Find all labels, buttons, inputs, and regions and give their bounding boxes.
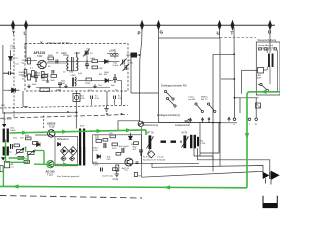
wire x107 — [106, 91, 108, 105]
label X FM block — [40, 40, 70, 45]
transformer TR1 input bars — [3, 129, 9, 143]
resistor Rf3 — [116, 153, 121, 156]
switch contact row b — [233, 118, 236, 121]
label 6401 — [93, 148, 99, 153]
label fill a1 — [30, 53, 118, 93]
label Cb — [19, 72, 25, 77]
svg-text:T119: T119 — [47, 172, 53, 176]
label 3+9 — [113, 178, 119, 181]
label L203 values — [61, 81, 65, 86]
connector arrow sym2 — [201, 118, 204, 123]
wire left column2 — [10, 50, 12, 70]
wire rail row2 — [98, 61, 102, 63]
squiggle text in box — [258, 44, 275, 49]
green arrow right horiz — [261, 90, 267, 94]
svg-text:T: T — [12, 31, 15, 36]
label Bildton — [201, 96, 208, 101]
connector arrow sym3 — [208, 118, 210, 123]
resistor R205 — [90, 58, 98, 63]
ground sym box2 — [64, 84, 68, 88]
transformer TR2 output bars — [79, 129, 85, 166]
resistor R221 vertical — [116, 165, 119, 171]
resistor R216 — [109, 133, 116, 138]
trimmer C209 — [83, 50, 89, 57]
label fill b1 — [95, 136, 134, 149]
transistor U1 AF121 T102 — [37, 60, 47, 68]
diode D204 above transformer — [2, 124, 6, 128]
capacitor C211 — [104, 143, 106, 148]
antenna input components left — [10, 46, 16, 50]
wire x92 stub — [91, 99, 93, 105]
transformer TR2 lower winding — [79, 147, 85, 166]
svg-text:FM-Gru.und ZF-Teil: FM-Gru.und ZF-Teil — [47, 41, 70, 45]
switch S2 — [166, 97, 176, 107]
node L on bus — [24, 20, 29, 36]
resistor R213 — [33, 142, 39, 145]
wire x23 down from box — [23, 91, 28, 106]
label tr 6a — [1, 105, 12, 121]
potentiometer P2 — [27, 150, 36, 157]
svg-text:T: T — [231, 31, 234, 36]
green arrow bottom 2 — [164, 185, 170, 189]
svg-text:125Ω: 125Ω — [85, 83, 91, 85]
junction dots misc — [43, 111, 221, 165]
coil L201 — [77, 52, 78, 71]
switch steuer — [258, 83, 268, 91]
wire MT78 wiper down — [148, 149, 151, 154]
speaker icon — [185, 119, 189, 123]
svg-text:L204: L204 — [109, 50, 115, 53]
node G on bus — [157, 20, 164, 35]
trimmer C203 — [120, 59, 127, 66]
label Nachlauf — [143, 157, 166, 162]
wire green mid line — [10, 130, 147, 135]
diamond sensor under MT78 — [148, 151, 155, 158]
coil L205 — [73, 77, 77, 87]
wire dashed drop from T — [13, 27, 15, 118]
wire speaker line 1 — [198, 148, 270, 172]
svg-text:1 Cte: 1 Cte — [14, 63, 20, 66]
wire collector to coil — [46, 62, 66, 64]
transistor Q3 — [125, 158, 133, 166]
wire x200 down — [199, 123, 201, 156]
bias network box2 — [93, 135, 142, 164]
small box A9 left — [4, 162, 14, 169]
svg-text:C d78: C d78 — [93, 165, 99, 167]
resistor R202 — [22, 74, 31, 81]
node U on bus — [217, 20, 222, 36]
wire dashed link box to Steuerschaltung — [220, 37, 256, 39]
potentiometer volume MT78 — [147, 135, 154, 149]
junction dot — [234, 97, 236, 99]
wire x114 stub — [114, 99, 116, 105]
resistor R219 — [113, 168, 118, 171]
label C230 — [264, 50, 272, 52]
label speaker impedance — [200, 141, 206, 146]
svg-text:1kΩ: 1kΩ — [1, 105, 5, 107]
svg-text:64Ω: 64Ω — [95, 138, 99, 140]
capacitor C214 — [101, 168, 103, 172]
transistor Q1 AD152 T118 — [48, 130, 55, 137]
diode D209 left edge — [1, 157, 5, 160]
Steuerschaltung contents: capacitor bank C230 — [268, 54, 274, 68]
switch S1 — [164, 90, 174, 100]
green arrow small — [21, 156, 26, 160]
svg-text:4Ω: 4Ω — [131, 144, 134, 146]
svg-text:Tr-6a 10kΩ: Tr-6a 10kΩ — [1, 118, 12, 121]
ground sym box3 — [93, 84, 97, 88]
svg-text:TN: TN — [138, 176, 141, 178]
capacitor C208 — [56, 60, 58, 64]
label values row2 — [99, 74, 107, 76]
resistor R203 — [42, 75, 48, 83]
green arrow mid 2 — [126, 128, 132, 132]
wire T118 base — [35, 134, 48, 136]
node D on bus — [268, 20, 272, 35]
wire steuer bottom — [269, 67, 271, 85]
connector arrow sym1 — [189, 118, 192, 123]
battery B1 — [263, 196, 277, 208]
wire dashed y105 — [0, 105, 128, 108]
wire y156 — [194, 155, 213, 157]
diode bridge DM4 — [69, 156, 74, 161]
wire box right edge down — [219, 123, 221, 167]
svg-text:C 1,25: C 1,25 — [157, 157, 164, 159]
diode D203 — [8, 88, 20, 93]
wire top supply bus — [0, 24, 275, 26]
ground mid — [104, 105, 109, 111]
svg-text:T102: T102 — [37, 55, 43, 58]
svg-text:Endlagenschalter(n): Endlagenschalter(n) — [157, 113, 180, 117]
svg-text:8Ω: 8Ω — [99, 74, 102, 76]
svg-text:6Ω: 6Ω — [104, 74, 107, 76]
capacitor C201 — [34, 71, 38, 82]
svg-text:MT 78: MT 78 — [147, 132, 154, 135]
svg-text:1kΩ: 1kΩ — [42, 80, 46, 82]
capacitor C216 — [136, 162, 139, 164]
svg-text:14kΩ: 14kΩ — [90, 58, 96, 60]
wire drop from G — [158, 27, 160, 38]
wire rail base row — [48, 61, 93, 63]
mechanical link dashed — [161, 140, 182, 142]
capacitor C207 — [85, 52, 89, 54]
dashed chassis line bottom — [0, 196, 142, 199]
switch contact row W — [255, 118, 258, 121]
capacitor C202 — [58, 83, 62, 88]
svg-text:10V: 10V — [20, 138, 24, 140]
svg-text:10nF: 10nF — [32, 84, 38, 86]
wire steuer right vertical — [276, 50, 278, 92]
svg-text:Nachlauf 12V Schleifdr.: Nachlauf 12V Schleifdr. — [143, 159, 166, 162]
diode bridge DM1 — [61, 147, 69, 156]
wire vertical x213 — [212, 54, 214, 160]
label 10k — [10, 128, 16, 133]
svg-text:+: + — [24, 44, 26, 48]
resistor R230 — [257, 68, 264, 80]
capacitor C204 — [85, 60, 89, 69]
transformer core L203/L201 — [72, 57, 74, 71]
wire drop from T2 — [233, 27, 236, 118]
label AF121 — [34, 51, 46, 58]
wire to tuning node — [118, 121, 140, 130]
svg-text:M 78: M 78 — [182, 132, 188, 135]
wire y112 short — [2, 111, 78, 114]
filter BO201 — [129, 53, 138, 65]
resistor R218 — [112, 143, 118, 150]
svg-text:(3+9): (3+9) — [113, 178, 119, 181]
resistor R210 — [14, 144, 20, 147]
wire drop from P — [140, 27, 143, 122]
junction dot — [233, 53, 235, 55]
Steuerschaltung box U1 — [256, 42, 280, 95]
diode D202 — [105, 79, 109, 83]
bias box Ruhestrom — [55, 136, 78, 166]
wire x131 down — [130, 58, 132, 94]
capacitor Cr2 — [114, 96, 116, 100]
label Kn 0.05 — [118, 96, 123, 101]
wire coil tops — [86, 56, 88, 60]
capacitor C215 on riser — [73, 94, 80, 102]
green arrow mid 1 — [22, 131, 28, 135]
transformer TR1 lower winding — [3, 147, 9, 156]
label AD152 T119 — [46, 169, 56, 176]
node T on bus — [11, 20, 15, 36]
capacitor C213 — [139, 150, 143, 156]
switch contact row a — [248, 118, 251, 121]
wire dashed y114 — [0, 115, 128, 119]
wire green bottom line — [0, 186, 247, 187]
svg-text:5kΩ: 5kΩ — [51, 80, 55, 82]
wire y97.8 right — [235, 97, 259, 99]
connector arrow sym4 — [228, 117, 231, 121]
wire mid right y54 — [213, 53, 234, 55]
wire aux line 4 — [142, 171, 264, 177]
resistor Rf2 — [103, 139, 108, 142]
potentiometer P1 — [16, 148, 25, 155]
wire y153 — [200, 152, 219, 154]
svg-text:P: P — [138, 31, 141, 36]
svg-text:G: G — [160, 30, 164, 35]
potentiometer tone M78 — [182, 135, 189, 148]
resistor R215 — [95, 138, 102, 143]
label Q3 — [122, 167, 129, 172]
switch S4 — [207, 103, 216, 113]
label A465 — [93, 161, 99, 167]
svg-text:kΩ: kΩ — [22, 63, 25, 65]
wire green left drop — [2, 167, 4, 186]
capacitor Cb — [3, 71, 14, 75]
svg-text:L203: L203 — [61, 52, 67, 55]
svg-text:nur FM: nur FM — [188, 98, 195, 101]
wire inside box bottom rail — [36, 87, 110, 89]
resistor R220 on box edge — [40, 88, 50, 92]
wire y90 left — [3, 89, 8, 91]
component row steuer — [259, 48, 277, 50]
capacitor C210 — [11, 144, 13, 149]
wire y93 link — [131, 92, 159, 94]
svg-text:12kΩ: 12kΩ — [19, 75, 25, 77]
node T2 on bus — [231, 20, 235, 36]
resistor Rb1 vertical — [32, 71, 41, 78]
capacitor Cf1 — [52, 70, 54, 74]
diode D201 — [101, 60, 111, 64]
wire coil bottoms — [63, 55, 77, 71]
svg-text:30Ω: 30Ω — [95, 136, 99, 138]
wire x256 — [255, 98, 257, 118]
junction dot riser — [75, 112, 77, 114]
switch S3 — [195, 103, 204, 113]
wire drop from D — [269, 27, 271, 48]
resistor Redge vertical — [24, 70, 27, 77]
wire x68 down — [75, 91, 77, 129]
resistor R217 — [133, 142, 139, 151]
capacitor C205 — [113, 74, 117, 83]
wire base rail — [26, 60, 37, 62]
component row below box: label 7k — [80, 96, 85, 101]
svg-text:Bei TV: Bei TV — [201, 99, 208, 101]
transformer TR3 speaker — [190, 135, 199, 149]
svg-text:4kΩ: 4kΩ — [25, 135, 29, 137]
wire emitter rail — [31, 75, 34, 77]
FM-ZF-Teil dashed enclosure — [25, 44, 128, 92]
resistor R212 — [25, 135, 31, 140]
label 1k 97 — [107, 157, 111, 161]
junction dot — [139, 54, 141, 56]
wire connector to battery — [266, 178, 272, 184]
box around pots — [142, 127, 200, 177]
svg-text:L201: L201 — [75, 52, 81, 55]
svg-text:NTC: NTC — [112, 148, 117, 150]
capacitor Cr1 — [91, 96, 93, 100]
wire L204 feed — [107, 49, 120, 62]
diode Da down — [9, 57, 13, 61]
svg-text:T118: T118 — [49, 124, 55, 128]
capacitor C212 — [122, 148, 124, 153]
svg-text:L205: L205 — [71, 75, 77, 77]
wire drop from L — [25, 27, 27, 62]
label Lautst nur FM — [188, 96, 195, 101]
svg-text:10kΩ: 10kΩ — [48, 55, 54, 57]
diode bridge DM3 — [61, 156, 66, 161]
resistor R214 — [24, 161, 30, 164]
node TN — [134, 173, 141, 178]
junction dot — [233, 78, 235, 80]
diode D207 — [97, 155, 101, 159]
wire green lower network — [6, 140, 80, 165]
wire y79 right — [221, 78, 234, 80]
diode D208 down — [129, 133, 133, 140]
coil L203 — [67, 57, 68, 71]
label Kn 0.01 — [95, 96, 100, 101]
wire x213 lower — [212, 156, 214, 172]
svg-text:97Ω: 97Ω — [107, 159, 111, 161]
svg-text:0.5pF: 0.5pF — [113, 65, 119, 67]
transistor Q2 AD152 T119 — [47, 161, 54, 168]
wire x240 — [239, 98, 241, 113]
resistor R208 — [48, 55, 54, 60]
resistor Rb2 vertical — [41, 72, 49, 79]
diode bridge DM2 — [69, 147, 77, 156]
label Da — [14, 58, 20, 66]
wire speaker line 2 — [193, 148, 195, 156]
svg-text:kΩ: kΩ — [22, 79, 25, 81]
label row 1ohm — [13, 138, 30, 140]
resistor R206 — [92, 66, 103, 70]
svg-text:X: X — [40, 40, 43, 45]
svg-text:Drehlagenschalter FM: Drehlagenschalter FM — [161, 84, 187, 88]
wire steuer out left — [242, 70, 258, 94]
wire y122 bottom of box — [142, 121, 237, 124]
diode D206 — [58, 143, 61, 147]
svg-text:2kΩ: 2kΩ — [99, 68, 103, 70]
coil L204 horizontal — [110, 53, 119, 56]
wire aux line 3 — [152, 163, 263, 175]
label C203 — [113, 63, 119, 68]
wire x219 down — [218, 123, 220, 153]
label values row — [63, 72, 74, 74]
wire detector row — [78, 81, 122, 92]
svg-text:Lautsprecher: Lautsprecher — [175, 123, 190, 127]
label AD152 T118 — [47, 122, 56, 129]
svg-text:C-Vte: C-Vte — [10, 47, 16, 50]
capacitor C220 — [256, 103, 261, 108]
wire into transformer — [3, 112, 5, 124]
wire drop from U — [219, 27, 221, 38]
small box edge left — [0, 166, 3, 172]
label 1k 01 — [119, 146, 129, 148]
resistor R201 — [22, 58, 31, 65]
diode D205 — [37, 143, 41, 147]
green arrow bottom 1 — [13, 184, 19, 188]
node circle tuning — [138, 121, 143, 126]
wire left column — [2, 45, 4, 112]
svg-text:5pF: 5pF — [111, 85, 115, 87]
wire from box to filter — [126, 54, 131, 56]
big box Drehlagenschalter FM — [159, 38, 221, 123]
resistor R211 — [18, 157, 29, 161]
wire green right riser — [247, 92, 280, 188]
trimmer C206 — [123, 64, 130, 71]
node P on bus — [138, 20, 145, 36]
ground sym1 — [115, 171, 119, 177]
wire filter to P line — [137, 54, 140, 56]
ground sym box1 — [46, 78, 50, 82]
svg-text:Ruhestrom: Ruhestrom — [57, 138, 69, 141]
svg-text:Abstimmung: Abstimmung — [144, 123, 159, 127]
svg-text:Steuerschaltung: Steuerschaltung — [258, 38, 277, 42]
resistor R207 — [85, 78, 92, 85]
resistor R204 — [51, 75, 57, 83]
connector plug J1 — [263, 171, 278, 179]
ground sym box4 — [27, 84, 31, 88]
wire x121 — [121, 91, 123, 105]
green arrow right vert — [245, 133, 249, 139]
green arrow mid 1b — [62, 130, 68, 134]
svg-text:7-Ca: 7-Ca — [14, 58, 20, 60]
svg-text:Rast. Endstufen gegentakt: Rast. Endstufen gegentakt — [57, 175, 80, 178]
svg-text:C178: C178 — [200, 143, 206, 145]
svg-text:7kΩ: 7kΩ — [98, 85, 102, 87]
svg-text:10kΩ: 10kΩ — [10, 130, 16, 132]
wire steuer internal — [264, 48, 271, 70]
wire dashed stub x43 — [43, 116, 45, 129]
